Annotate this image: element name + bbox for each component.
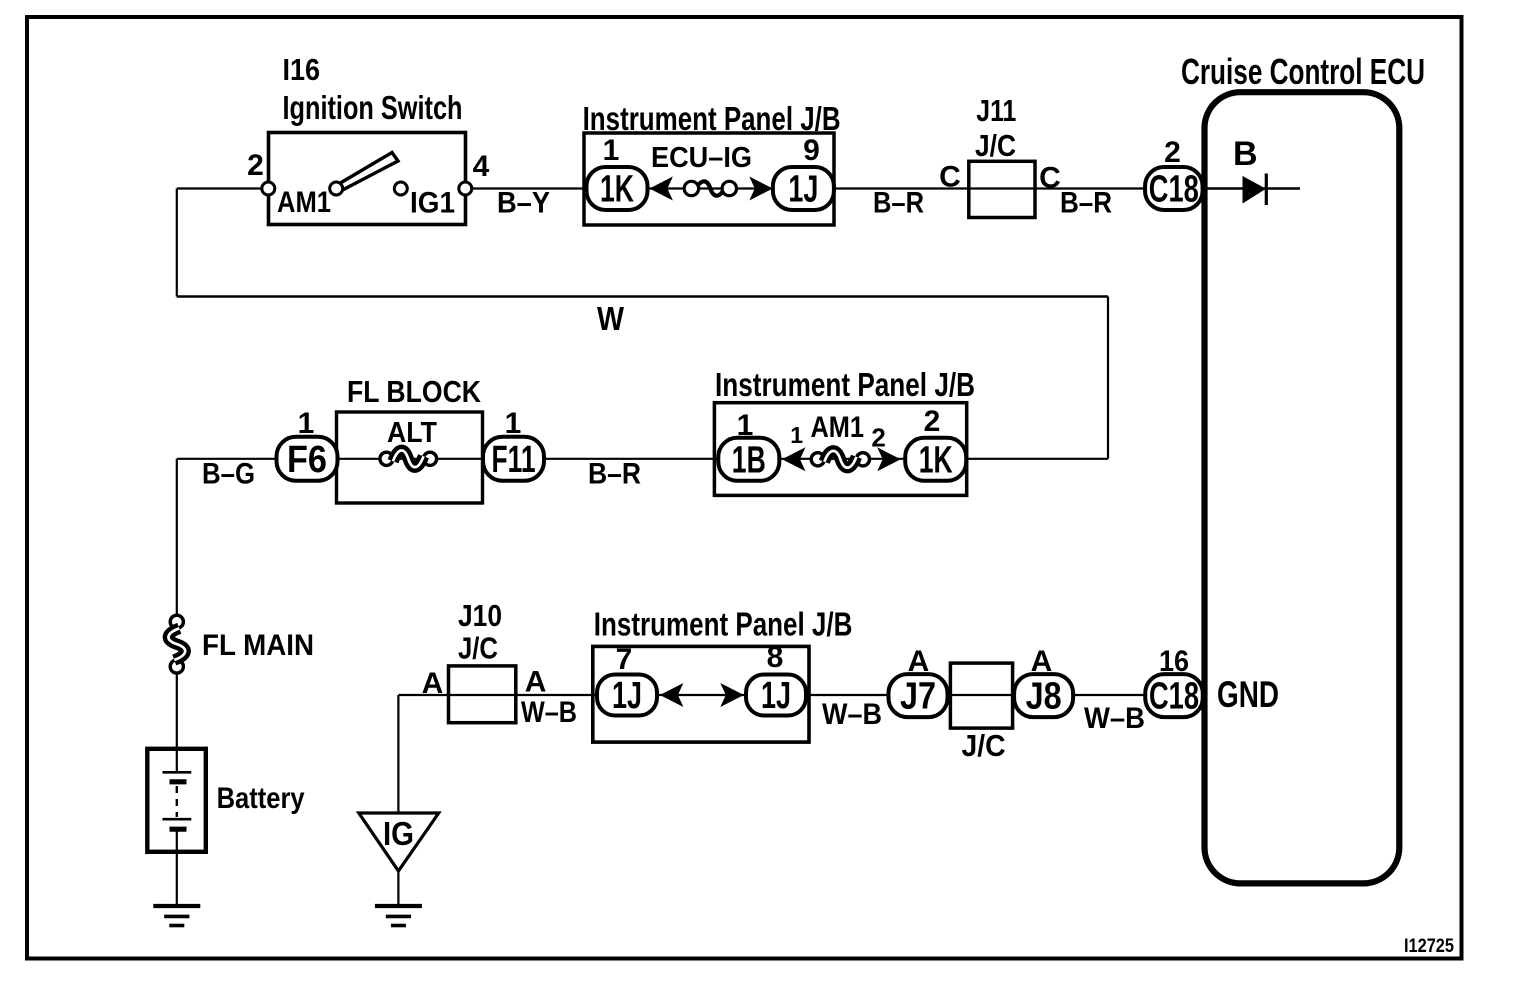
svg-text:B–R: B–R bbox=[588, 458, 641, 491]
svg-text:ECU–IG: ECU–IG bbox=[651, 142, 752, 174]
svg-text:C: C bbox=[1039, 162, 1061, 195]
svg-text:Battery: Battery bbox=[217, 782, 305, 815]
svg-text:W–B: W–B bbox=[1084, 702, 1145, 735]
svg-text:8: 8 bbox=[767, 641, 784, 674]
svg-text:B–R: B–R bbox=[1060, 187, 1112, 220]
svg-text:B–G: B–G bbox=[202, 458, 255, 491]
svg-text:IG: IG bbox=[383, 815, 414, 852]
svg-text:A: A bbox=[525, 666, 547, 699]
svg-text:Instrument Panel J/B: Instrument Panel J/B bbox=[594, 606, 853, 643]
svg-text:C: C bbox=[939, 160, 961, 193]
svg-text:A: A bbox=[1031, 645, 1053, 678]
svg-text:Cruise Control ECU: Cruise Control ECU bbox=[1181, 51, 1425, 92]
svg-text:AM1: AM1 bbox=[811, 411, 865, 444]
svg-text:1: 1 bbox=[790, 422, 803, 448]
svg-text:IG1: IG1 bbox=[410, 187, 455, 220]
svg-text:A: A bbox=[422, 667, 444, 700]
svg-text:1: 1 bbox=[603, 134, 620, 167]
svg-text:16: 16 bbox=[1159, 645, 1189, 678]
svg-text:B–R: B–R bbox=[873, 187, 924, 220]
svg-text:J/C: J/C bbox=[962, 728, 1006, 763]
svg-text:Instrument Panel J/B: Instrument Panel J/B bbox=[583, 100, 841, 137]
svg-text:Instrument Panel J/B: Instrument Panel J/B bbox=[715, 366, 975, 403]
svg-text:2: 2 bbox=[1164, 136, 1181, 169]
svg-text:FL MAIN: FL MAIN bbox=[202, 629, 314, 662]
svg-text:2: 2 bbox=[247, 149, 264, 182]
svg-text:I16: I16 bbox=[283, 52, 321, 87]
svg-text:F11: F11 bbox=[492, 439, 536, 481]
svg-text:1J: 1J bbox=[788, 169, 818, 211]
svg-text:W: W bbox=[597, 300, 625, 337]
svg-text:FL BLOCK: FL BLOCK bbox=[347, 375, 481, 409]
svg-text:C18: C18 bbox=[1149, 676, 1199, 718]
svg-text:AM1: AM1 bbox=[277, 186, 331, 219]
svg-text:B: B bbox=[1233, 135, 1258, 173]
svg-text:J11: J11 bbox=[976, 93, 1016, 128]
svg-text:Ignition Switch: Ignition Switch bbox=[283, 89, 463, 126]
svg-text:2: 2 bbox=[924, 405, 941, 438]
svg-text:1: 1 bbox=[505, 407, 522, 440]
svg-text:F6: F6 bbox=[287, 439, 327, 481]
svg-text:1J: 1J bbox=[612, 675, 642, 717]
svg-text:1K: 1K bbox=[600, 169, 634, 211]
svg-text:J7: J7 bbox=[900, 676, 936, 718]
svg-text:1B: 1B bbox=[732, 439, 766, 481]
svg-text:J10: J10 bbox=[458, 598, 502, 633]
svg-text:C18: C18 bbox=[1149, 169, 1199, 211]
svg-text:B–Y: B–Y bbox=[497, 187, 550, 220]
svg-text:I12725: I12725 bbox=[1404, 936, 1454, 957]
svg-text:J8: J8 bbox=[1026, 676, 1062, 718]
svg-text:W–B: W–B bbox=[521, 696, 577, 729]
svg-text:W–B: W–B bbox=[822, 698, 882, 731]
svg-text:J/C: J/C bbox=[458, 631, 498, 666]
svg-text:1: 1 bbox=[298, 407, 315, 440]
svg-text:1J: 1J bbox=[761, 675, 791, 717]
svg-text:A: A bbox=[908, 645, 930, 678]
svg-text:7: 7 bbox=[616, 643, 633, 676]
svg-text:ALT: ALT bbox=[387, 417, 437, 449]
svg-text:J/C: J/C bbox=[975, 128, 1016, 163]
svg-text:9: 9 bbox=[803, 134, 820, 167]
svg-text:1K: 1K bbox=[919, 439, 953, 481]
svg-text:4: 4 bbox=[473, 150, 490, 183]
svg-text:GND: GND bbox=[1217, 674, 1279, 715]
